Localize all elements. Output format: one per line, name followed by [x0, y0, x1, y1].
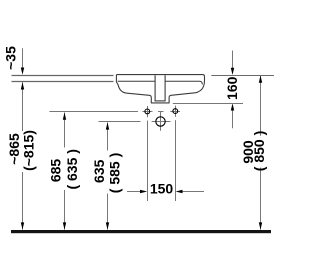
svg-text:~865: ~865	[6, 133, 22, 165]
extension line right faucet hole	[175, 106, 177, 201]
svg-text:685: 685	[48, 159, 64, 183]
svg-text:635: 635	[91, 159, 107, 183]
faucet hole right circle	[173, 109, 178, 114]
dim 150 left arrow	[127, 191, 143, 193]
dim line 900 upper segment	[260, 76, 262, 136]
dim 150 right arrow	[180, 191, 205, 193]
dim 160 lower tail	[232, 108, 234, 129]
floor line	[11, 230, 271, 233]
centerline drain vertical	[160, 111, 162, 131]
drain hole circle	[156, 117, 165, 126]
drain stub left wall	[154, 75, 156, 101]
dim line 685	[64, 113, 66, 148]
svg-text:( 585 ): ( 585 )	[106, 153, 122, 193]
svg-text:(~815): (~815)	[21, 130, 37, 171]
svg-text:~35: ~35	[3, 46, 19, 70]
countertop bottom line left	[12, 81, 114, 83]
extension line left faucet hole	[147, 106, 149, 201]
dim line left ~865	[22, 82, 24, 131]
svg-text:150: 150	[150, 180, 174, 196]
drain stub bottom	[155, 100, 166, 102]
drain stub right wall	[164, 75, 166, 101]
dim line 900 lower segment	[260, 168, 262, 230]
centerline faucet holes horizontal	[49, 111, 180, 113]
dim 160 upper tail	[232, 51, 234, 71]
reference line basin bottom y103	[173, 103, 243, 105]
svg-text:160: 160	[224, 76, 240, 100]
basin outer outline	[116, 75, 204, 103]
basin inner rim line right	[165, 81, 202, 84]
basin inner rim line left	[118, 80, 156, 82]
svg-text:( 635 ): ( 635 )	[64, 149, 80, 189]
countertop extension line right	[211, 75, 274, 77]
svg-text:( 850 ): ( 850 )	[251, 131, 267, 171]
dim ~35 upper tail	[22, 48, 24, 70]
countertop top line left	[12, 75, 114, 77]
dim line 635	[107, 122, 109, 150]
faucet hole left circle	[145, 109, 150, 114]
centerline drain horizontal	[99, 121, 171, 123]
